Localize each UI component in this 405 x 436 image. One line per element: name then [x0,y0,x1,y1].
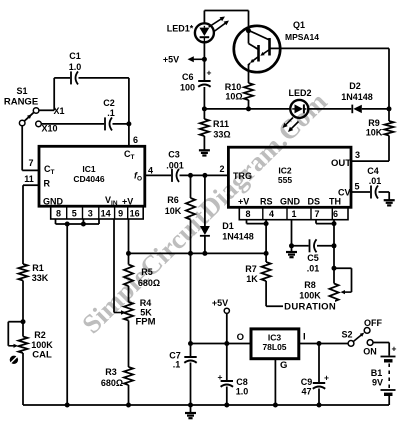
svg-text:8: 8 [245,209,250,219]
svg-text:33K: 33K [32,273,49,283]
svg-text:1N4148: 1N4148 [222,232,254,242]
svg-text:R8: R8 [304,280,316,290]
svg-text:C1: C1 [69,51,81,61]
svg-text:4: 4 [269,209,274,219]
svg-text:33Ω: 33Ω [213,130,230,140]
svg-text:R11: R11 [213,119,229,129]
svg-text:10Ω: 10Ω [225,92,242,102]
svg-text:+: + [207,68,212,78]
svg-text:6: 6 [133,135,138,145]
svg-text:14: 14 [101,208,111,218]
svg-text:680Ω: 680Ω [138,278,160,288]
svg-text:CT: CT [44,164,55,176]
svg-text:3: 3 [355,150,360,160]
svg-text:ON: ON [363,347,377,357]
svg-text:fO: fO [134,171,142,183]
svg-text:4: 4 [148,166,153,176]
svg-text:IC1: IC1 [82,164,96,174]
svg-text:R9: R9 [368,118,380,128]
svg-text:DS: DS [308,197,321,207]
svg-text:78L05: 78L05 [262,342,286,352]
svg-text:16: 16 [130,208,140,218]
svg-text:R10: R10 [225,82,242,92]
svg-text:+: + [324,373,329,383]
svg-text:.001: .001 [166,161,184,171]
svg-text:D1: D1 [222,221,234,231]
svg-text:100K: 100K [299,291,321,301]
svg-text:.1: .1 [173,360,181,370]
svg-text:5: 5 [354,182,359,192]
svg-text:R: R [44,179,51,189]
svg-text:3: 3 [88,208,93,218]
svg-text:OUT: OUT [331,158,351,169]
svg-text:TRG: TRG [233,171,252,181]
svg-text:+5V: +5V [163,55,179,65]
svg-text:R1: R1 [32,263,44,273]
svg-text:+5V: +5V [212,298,228,308]
svg-text:X10: X10 [41,124,57,134]
svg-text:G: G [280,360,287,371]
svg-text:IC2: IC2 [278,166,292,176]
svg-text:680Ω: 680Ω [101,378,123,388]
svg-text:+V: +V [238,197,249,207]
svg-text:GND: GND [280,197,301,207]
svg-text:1.0: 1.0 [69,62,82,72]
svg-text:C3: C3 [168,150,180,160]
svg-text:OFF: OFF [364,318,382,328]
svg-text:555: 555 [278,175,292,185]
svg-text:S1: S1 [16,86,27,96]
svg-text:1: 1 [291,209,296,219]
svg-text:R6: R6 [167,195,179,205]
svg-text:9V: 9V [372,378,383,388]
svg-text:LED1*: LED1* [167,24,194,34]
svg-text:.01: .01 [307,264,320,274]
svg-text:CAL: CAL [32,350,52,361]
svg-text:6: 6 [333,209,338,219]
svg-text:5: 5 [72,208,77,218]
svg-text:R7: R7 [245,264,257,274]
svg-text:8: 8 [56,208,61,218]
svg-text:9: 9 [118,208,123,218]
svg-text:RANGE: RANGE [4,97,38,108]
svg-text:I: I [303,332,306,343]
svg-text:IC3: IC3 [268,333,282,343]
svg-text:O: O [237,332,244,343]
svg-text:RS: RS [260,197,273,207]
svg-text:C6: C6 [182,72,194,82]
svg-text:1N4148: 1N4148 [341,92,373,102]
svg-text:Q1: Q1 [293,20,305,30]
svg-text:+V: +V [122,197,133,207]
svg-text:1K: 1K [246,274,258,284]
svg-text:100K: 100K [31,340,53,350]
svg-text:C5: C5 [307,253,319,263]
svg-text:S2: S2 [341,330,352,340]
svg-text:C9: C9 [301,377,313,387]
svg-text:LED2: LED2 [288,88,311,98]
svg-text:DURATION: DURATION [284,302,336,313]
svg-text:B1: B1 [371,368,383,378]
svg-text:CT: CT [124,149,135,161]
svg-text:47: 47 [301,387,311,397]
svg-text:100: 100 [180,83,195,93]
svg-text:GND: GND [43,197,64,207]
svg-text:D2: D2 [349,81,361,91]
svg-text:R4: R4 [140,298,152,308]
svg-text:+: + [218,372,223,382]
svg-text:C8: C8 [236,377,248,387]
svg-text:10K: 10K [366,128,383,138]
svg-text:R2: R2 [34,330,46,340]
svg-text:CD4046: CD4046 [73,174,104,184]
svg-text:C4: C4 [367,166,379,176]
svg-text:MPSA14: MPSA14 [285,32,319,42]
svg-text:+: + [392,344,397,354]
svg-text:2: 2 [219,164,224,174]
svg-text:7: 7 [314,209,319,219]
svg-text:1.0: 1.0 [236,387,249,397]
svg-text:R3: R3 [105,367,117,377]
svg-text:R5: R5 [141,267,153,277]
svg-text:11: 11 [24,174,34,184]
svg-text:X1: X1 [53,106,64,116]
svg-text:C2: C2 [103,98,115,108]
svg-text:.1: .1 [107,108,115,118]
svg-text:10K: 10K [165,206,182,216]
svg-text:.01: .01 [369,176,382,186]
svg-text:FPM: FPM [135,317,155,328]
svg-text:7: 7 [28,158,33,168]
svg-text:TH: TH [329,197,341,207]
